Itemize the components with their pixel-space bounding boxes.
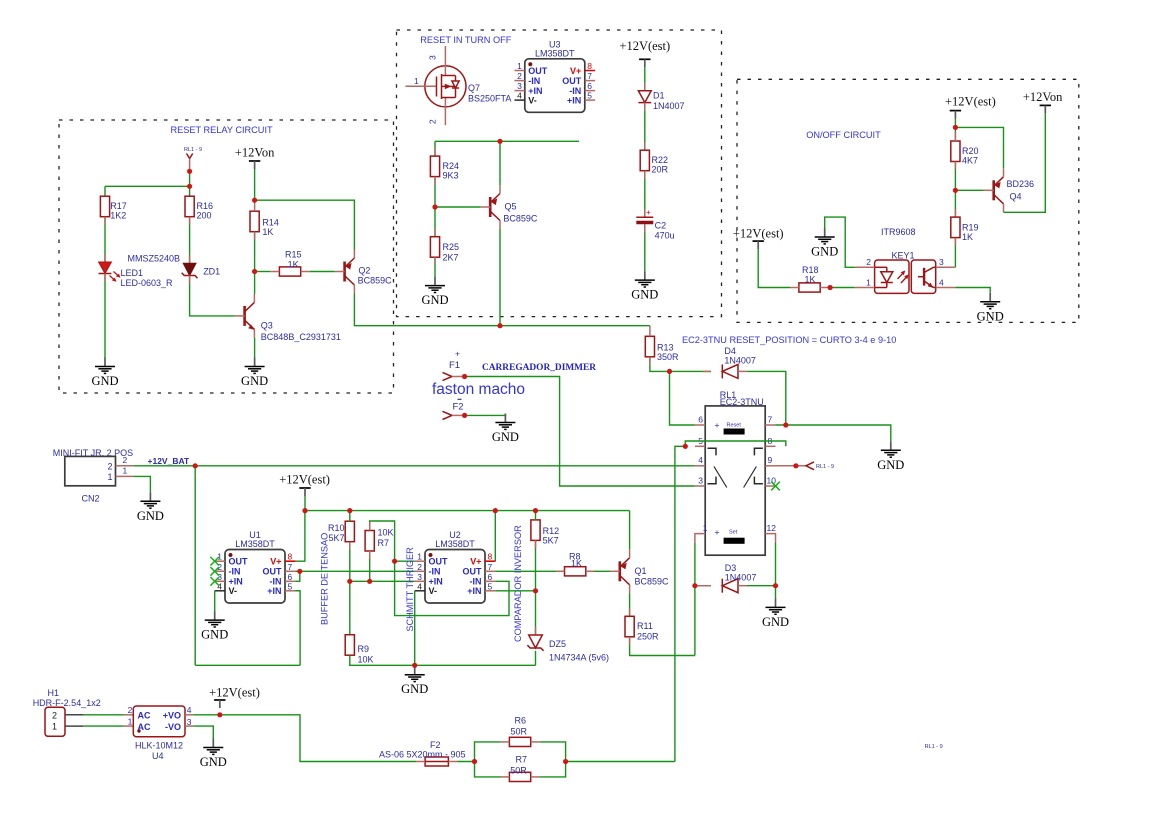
svg-text:BUFFER DE TENSAO: BUFFER DE TENSAO xyxy=(320,533,330,625)
power +12V(est) xyxy=(945,95,996,119)
svg-text:5K7: 5K7 xyxy=(328,533,344,543)
svg-text:V+: V+ xyxy=(270,557,281,567)
wire R7 bottom xyxy=(369,551,371,581)
svg-text:2: 2 xyxy=(128,705,133,715)
svg-text:5: 5 xyxy=(288,581,293,591)
power +12V(est) xyxy=(209,685,260,708)
svg-text:+IN: +IN xyxy=(467,586,481,596)
svg-text:1: 1 xyxy=(414,76,419,86)
wire Q1 emitter up xyxy=(629,511,631,550)
wire bottom U to U1 pin5 xyxy=(195,591,300,666)
ground xyxy=(137,492,164,523)
wire R20-R19 node xyxy=(954,162,956,218)
svg-text:DZ5: DZ5 xyxy=(549,639,566,649)
wire top rail R24/Q5 xyxy=(435,140,579,142)
svg-text:-IN: -IN xyxy=(569,86,581,96)
svg-text:D4: D4 xyxy=(724,346,736,356)
power +12V(est) xyxy=(279,473,330,497)
svg-text:Set: Set xyxy=(729,530,738,536)
svg-text:+IN: +IN xyxy=(267,586,281,596)
wire feedback pin6 loop xyxy=(395,561,509,615)
svg-text:1: 1 xyxy=(107,472,112,482)
wire ZD1-Q3 base xyxy=(190,276,235,316)
svg-text:+12V(est): +12V(est) xyxy=(945,95,996,109)
svg-text:6: 6 xyxy=(488,572,493,582)
svg-text:COMPARADOR INVERSOR: COMPARADOR INVERSOR xyxy=(513,525,523,642)
svg-text:R24: R24 xyxy=(443,161,460,171)
svg-text:R10: R10 xyxy=(328,523,345,533)
ground xyxy=(631,271,658,302)
resistor R25 2K7 xyxy=(430,237,459,263)
resistor R22 20R xyxy=(640,150,668,175)
svg-text:MMSZ5240B: MMSZ5240B xyxy=(127,254,180,264)
svg-text:3: 3 xyxy=(417,572,422,582)
dashed border RESET IN TURN OFF block xyxy=(397,30,722,317)
svg-text:+12V(est): +12V(est) xyxy=(733,226,784,240)
svg-text:V-: V- xyxy=(229,586,238,596)
svg-text:OUT: OUT xyxy=(463,567,483,577)
svg-text:20R: 20R xyxy=(652,165,669,175)
svg-text:LED-0603_R: LED-0603_R xyxy=(121,278,174,288)
resistor R18 1K xyxy=(799,283,820,292)
svg-text:-IN: -IN xyxy=(270,577,282,587)
svg-text:V+: V+ xyxy=(470,557,481,567)
svg-text:BC859C: BC859C xyxy=(503,214,538,224)
svg-text:4: 4 xyxy=(187,705,192,715)
wire R19-opto pin3 xyxy=(954,238,956,268)
svg-text:F2: F2 xyxy=(453,402,464,413)
ground xyxy=(421,277,448,308)
svg-text:1K: 1K xyxy=(962,232,973,242)
svg-text:F1: F1 xyxy=(449,360,460,371)
connector H1 HDR-F-2.54_1x2 xyxy=(33,688,101,737)
wire R11 bottom to relay pin1 net xyxy=(630,637,695,656)
dashed border RESET RELAY CIRCUIT block xyxy=(59,120,394,393)
wire R6R7 to vertical xyxy=(566,761,675,763)
fuse F2 AS-06 5X20mm xyxy=(379,740,466,766)
svg-text:2: 2 xyxy=(517,71,522,81)
resistor R19 1K xyxy=(951,217,979,242)
svg-text:4: 4 xyxy=(939,278,944,288)
wire R15-Q2 base xyxy=(310,271,335,273)
svg-text:+12V_BAT: +12V_BAT xyxy=(148,456,190,466)
svg-text:AC: AC xyxy=(138,711,151,721)
wire U1 pin8 V+ up xyxy=(295,511,305,562)
svg-text:2: 2 xyxy=(417,562,422,572)
svg-text:+IN: +IN xyxy=(429,577,443,587)
wire RL1-9 to R16 xyxy=(189,171,191,196)
wire D3 right xyxy=(747,585,776,587)
svg-text:OUT: OUT xyxy=(263,567,283,577)
svg-text:1N4007: 1N4007 xyxy=(725,573,757,583)
svg-text:D1: D1 xyxy=(653,91,665,101)
wire R9 node down xyxy=(349,581,351,634)
wire U1 pin4 to GND xyxy=(214,591,216,611)
svg-text:3: 3 xyxy=(428,55,438,60)
svg-text:R12: R12 xyxy=(543,526,560,536)
svg-text:1: 1 xyxy=(517,61,522,71)
wire R6 branch xyxy=(475,742,566,762)
svg-text:R11: R11 xyxy=(637,621,653,631)
svg-text:Q2: Q2 xyxy=(358,266,370,276)
svg-text:6: 6 xyxy=(698,415,703,425)
svg-text:4: 4 xyxy=(517,91,522,101)
svg-text:LED1: LED1 xyxy=(121,268,144,278)
svg-text:5: 5 xyxy=(587,91,592,101)
diode D3 1N4007 xyxy=(722,579,738,593)
svg-text:2: 2 xyxy=(866,257,871,267)
wire R17-LED1 xyxy=(104,217,106,262)
svg-text:Q1: Q1 xyxy=(635,566,647,576)
svg-text:7: 7 xyxy=(768,415,773,425)
wire Q5 emitter xyxy=(499,141,501,185)
svg-text:OUT: OUT xyxy=(562,76,582,86)
svg-text:3: 3 xyxy=(939,257,944,267)
LED LED1 LED-0603_R xyxy=(99,262,173,288)
resistor R15 1K xyxy=(279,267,300,276)
svg-text:4: 4 xyxy=(217,581,222,591)
svg-text:+: + xyxy=(715,527,720,537)
diode D1 1N4007 xyxy=(638,91,651,103)
wire D3 left xyxy=(695,585,711,587)
svg-text:ON/OFF CIRCUIT: ON/OFF CIRCUIT xyxy=(806,130,881,140)
ground xyxy=(811,228,838,259)
svg-text:1N4007: 1N4007 xyxy=(724,356,756,366)
svg-text:KEY1: KEY1 xyxy=(892,251,915,261)
svg-text:50R: 50R xyxy=(510,766,527,776)
svg-text:1: 1 xyxy=(417,552,422,562)
svg-text:+12V(est): +12V(est) xyxy=(619,39,670,53)
wire +12V rail xyxy=(305,496,630,511)
svg-text:R9: R9 xyxy=(358,644,370,654)
no-connect pin10 xyxy=(771,482,780,491)
svg-text:-IN: -IN xyxy=(470,577,482,587)
svg-text:ZD1: ZD1 xyxy=(203,267,220,277)
svg-text:C2: C2 xyxy=(655,221,667,231)
resistor R17 1K2 xyxy=(100,196,126,221)
wire R6R7 feed up to relay pin5 xyxy=(675,446,685,761)
transistor Q4 BD236 xyxy=(984,168,1004,212)
svg-text:faston macho: faston macho xyxy=(432,381,525,398)
transistor Q5 BC859C xyxy=(480,185,500,229)
svg-text:7: 7 xyxy=(288,562,293,572)
wire U2 pin4 down xyxy=(414,591,416,666)
svg-text:5K7: 5K7 xyxy=(543,536,559,546)
ground xyxy=(200,739,227,770)
svg-text:R25: R25 xyxy=(443,242,460,252)
svg-text:3: 3 xyxy=(217,572,222,582)
wire -VO to GND xyxy=(193,726,213,738)
wire U2 pin5 right xyxy=(495,590,535,592)
power +12V(est) xyxy=(619,39,670,67)
wire to D1 xyxy=(644,67,646,90)
ground xyxy=(91,358,118,389)
svg-text:V-: V- xyxy=(429,586,438,596)
resistor R13 350R xyxy=(645,336,679,362)
svg-text:RL1 - 9: RL1 - 9 xyxy=(816,464,834,470)
svg-text:R7: R7 xyxy=(516,754,528,764)
wire R13 node to D4 xyxy=(670,370,712,372)
wire R7 branch xyxy=(475,762,566,777)
resistor R24 9K3 xyxy=(430,156,459,181)
svg-text:R18: R18 xyxy=(802,265,819,275)
wire GND jog to opto pin2 xyxy=(825,217,855,267)
svg-text:LM358DT: LM358DT xyxy=(535,48,575,58)
dashed border ON/OFF CIRCUIT block xyxy=(737,79,1079,322)
svg-text:2: 2 xyxy=(107,461,112,471)
svg-text:3: 3 xyxy=(187,717,192,727)
svg-text:1K2: 1K2 xyxy=(110,211,126,221)
svg-text:CN2: CN2 xyxy=(82,494,100,504)
power +12V(est) left xyxy=(733,226,784,249)
wire to R17 xyxy=(105,186,190,196)
svg-text:3: 3 xyxy=(698,476,703,486)
svg-text:+12Von: +12Von xyxy=(1023,90,1063,104)
optocoupler KEY1 ITR9608 xyxy=(855,227,956,293)
svg-text:+12V(est): +12V(est) xyxy=(279,473,330,487)
wire pin9 to label xyxy=(776,465,807,467)
svg-text:10K: 10K xyxy=(358,655,374,665)
svg-text:2: 2 xyxy=(123,455,128,465)
svg-text:10: 10 xyxy=(767,476,777,486)
svg-text:1N4734A (5v6): 1N4734A (5v6) xyxy=(549,653,609,663)
wire R12 top xyxy=(535,511,537,520)
wire U2 out to R8/Q1 xyxy=(495,570,610,572)
svg-text:+IN: +IN xyxy=(229,577,243,587)
ground xyxy=(977,293,1004,324)
resistor R7 50R xyxy=(509,772,530,781)
svg-text:D3: D3 xyxy=(725,563,737,573)
wire Q1 collector to R11 xyxy=(629,593,631,616)
svg-text:EC2-3TNU: EC2-3TNU xyxy=(720,397,764,407)
svg-text:1: 1 xyxy=(123,466,128,476)
svg-text:U4: U4 xyxy=(152,751,164,761)
wire Q5 collector xyxy=(499,229,501,326)
wire Q4 collector to +12Von xyxy=(1004,113,1046,212)
svg-text:+: + xyxy=(646,208,651,217)
wire LED1-GND xyxy=(104,274,106,358)
svg-text:RL1 - 9: RL1 - 9 xyxy=(184,147,202,153)
op-amp U1 LM358DT xyxy=(210,530,295,603)
wire R10 bottom xyxy=(349,542,351,582)
svg-text:1: 1 xyxy=(217,552,222,562)
svg-text:R13: R13 xyxy=(657,343,674,353)
resistor R16 200 xyxy=(185,196,213,221)
wire R18-opto pin1 xyxy=(829,287,855,289)
svg-text:Q3: Q3 xyxy=(261,321,273,331)
svg-text:2: 2 xyxy=(52,710,57,720)
svg-text:1K: 1K xyxy=(288,259,299,269)
svg-text:BC859C: BC859C xyxy=(635,577,670,587)
ground xyxy=(401,666,428,697)
svg-text:+12V(est): +12V(est) xyxy=(209,685,260,699)
relay RL1 EC2-3TNU xyxy=(695,390,776,555)
svg-text:R14: R14 xyxy=(262,218,279,228)
wire R14-Q3 collector xyxy=(254,232,256,294)
wire R22-C2 xyxy=(644,171,646,218)
svg-text:HDR-F-2.54_1x2: HDR-F-2.54_1x2 xyxy=(33,698,101,708)
wire C2-GND xyxy=(644,224,646,271)
svg-text:+: + xyxy=(455,349,460,359)
svg-text:R7: R7 xyxy=(378,538,390,548)
svg-text:5: 5 xyxy=(488,581,493,591)
wire +12V_BAT rail to relay pin4 xyxy=(134,465,695,467)
wire R13 bottom xyxy=(650,357,670,372)
wire F1 to relay pin3 xyxy=(465,377,695,487)
wire pin12 down to GND xyxy=(775,543,777,598)
zener diode ZD1 MMSZ5240B xyxy=(127,254,220,279)
svg-text:8: 8 xyxy=(488,552,493,562)
wire DZ5-gnd rail xyxy=(535,651,537,666)
wire U1 pin5 down xyxy=(295,590,300,592)
svg-text:SCHMITT THRIGER: SCHMITT THRIGER xyxy=(405,547,415,632)
wire Q2 collector down xyxy=(354,294,650,326)
wire pin1 down xyxy=(694,543,696,656)
svg-text:-IN: -IN xyxy=(429,567,441,577)
svg-text:50R: 50R xyxy=(511,727,528,737)
svg-text:6: 6 xyxy=(288,572,293,582)
resistor R8 1K xyxy=(565,567,586,576)
resistor R12 5K7 xyxy=(531,520,559,546)
svg-text:1: 1 xyxy=(703,523,708,533)
wire pin7 to GND xyxy=(776,425,891,441)
svg-text:4: 4 xyxy=(698,455,703,465)
wire R25-GND xyxy=(434,257,436,276)
svg-text:RESET IN TURN OFF: RESET IN TURN OFF xyxy=(420,35,511,45)
power +12Von xyxy=(235,146,275,170)
svg-text:OUT: OUT xyxy=(528,66,548,76)
svg-text:+: + xyxy=(715,420,720,430)
svg-text:-VO: -VO xyxy=(165,722,181,732)
wire to R20 xyxy=(954,119,956,141)
svg-text:+IN: +IN xyxy=(528,86,542,96)
wire U2 pin8 V+ up xyxy=(494,511,496,562)
global label RL1 - 9 (pin9) xyxy=(806,462,834,470)
svg-text:Q7: Q7 xyxy=(468,83,480,93)
resistor R10 5K7 xyxy=(328,521,354,543)
wire R10 top xyxy=(349,511,351,522)
wire +VO to fuse F2 xyxy=(193,715,416,762)
wire CN2 pin1 to GND xyxy=(134,476,150,492)
wire pin5/pin8 jog xyxy=(685,441,786,446)
wire +12Von to R14 xyxy=(254,169,256,200)
wire to R18 xyxy=(758,249,790,287)
svg-text:12: 12 xyxy=(767,523,777,533)
wire R7 top to U2 pin1 xyxy=(370,521,395,561)
svg-text:9: 9 xyxy=(768,455,773,465)
svg-text:1K: 1K xyxy=(805,274,816,284)
svg-text:HLK-10M12: HLK-10M12 xyxy=(135,740,183,750)
ground xyxy=(877,441,904,472)
svg-text:200: 200 xyxy=(197,211,212,221)
svg-text:1: 1 xyxy=(866,278,871,288)
svg-text:8: 8 xyxy=(288,552,293,562)
svg-text:7: 7 xyxy=(488,562,493,572)
resistor R7 10K xyxy=(365,527,393,551)
transistor Q1 BC859C xyxy=(610,549,630,593)
wire to Q5 base xyxy=(435,206,480,208)
svg-text:EC2-3TNU RESET_POSITION = CURT: EC2-3TNU RESET_POSITION = CURTO 3-4 e 9-… xyxy=(682,335,896,345)
svg-text:LM358DT: LM358DT xyxy=(235,539,275,549)
svg-text:9K3: 9K3 xyxy=(443,171,459,181)
svg-text:AS-06 5X20mm - 905: AS-06 5X20mm - 905 xyxy=(379,749,466,759)
wire fuse to R6R7 xyxy=(458,761,475,763)
svg-text:RESET RELAY CIRCUIT: RESET RELAY CIRCUIT xyxy=(171,125,273,135)
wire U1 pin7 out xyxy=(295,570,414,572)
svg-text:BC859C: BC859C xyxy=(358,276,393,286)
svg-text:250R: 250R xyxy=(637,632,659,642)
svg-text:7: 7 xyxy=(587,71,592,81)
svg-text:-IN: -IN xyxy=(229,567,241,577)
svg-text:+12Von: +12Von xyxy=(235,146,275,160)
svg-text:BD236: BD236 xyxy=(1007,179,1035,189)
svg-text:1: 1 xyxy=(128,716,133,726)
svg-text:1: 1 xyxy=(52,722,57,732)
svg-text:R16: R16 xyxy=(197,201,214,211)
wire R9-gnd rail xyxy=(350,655,536,665)
svg-text:1K: 1K xyxy=(262,227,273,237)
svg-text:LM358DT: LM358DT xyxy=(435,539,475,549)
wire +12V_BAT down xyxy=(194,466,196,666)
svg-text:R19: R19 xyxy=(962,223,979,233)
svg-text:R15: R15 xyxy=(285,250,302,260)
svg-text:Q5: Q5 xyxy=(505,202,517,212)
wire to Q2 emitter xyxy=(255,200,355,250)
transistor Q7 BS250FTA p-mosfet xyxy=(405,46,511,125)
wire to Q4 emitter xyxy=(955,127,1003,168)
svg-text:4K7: 4K7 xyxy=(962,156,978,166)
transistor Q2 BC859C xyxy=(335,250,355,294)
ground xyxy=(241,358,268,389)
ground xyxy=(201,611,228,642)
svg-text:BC848B_C2931731: BC848B_C2931731 xyxy=(261,332,341,342)
svg-text:470u: 470u xyxy=(655,231,675,241)
global label RL1 - 9 (top) xyxy=(184,147,202,171)
svg-text:OUT: OUT xyxy=(229,557,249,567)
svg-text:350R: 350R xyxy=(657,352,679,362)
ground xyxy=(492,414,519,445)
wire pin3 node xyxy=(350,580,415,582)
resistor R14 1K xyxy=(250,211,279,237)
svg-text:MINI-FIT JR. 2 POS: MINI-FIT JR. 2 POS xyxy=(53,448,133,458)
diode D4 1N4007 xyxy=(722,364,738,378)
svg-text:Reset: Reset xyxy=(727,423,742,429)
global label F2 - xyxy=(443,399,465,419)
svg-text:1N4007: 1N4007 xyxy=(653,101,685,111)
wire to Q4 base xyxy=(955,189,984,191)
svg-text:R17: R17 xyxy=(110,201,127,211)
svg-text:RL1 - 9: RL1 - 9 xyxy=(925,744,943,750)
wire R16-ZD1 xyxy=(189,217,191,264)
wire U2 pin1 xyxy=(395,560,415,562)
capacitor C2 470u xyxy=(636,208,674,241)
op-amp U3 LM358DT xyxy=(515,39,596,112)
svg-text:10K: 10K xyxy=(378,527,394,537)
module U4 HLK-10M12 xyxy=(128,705,194,761)
svg-text:H1: H1 xyxy=(48,688,60,698)
svg-text:V-: V- xyxy=(528,96,537,106)
wire D1-R22 xyxy=(644,103,646,151)
svg-text:1K: 1K xyxy=(571,559,582,569)
svg-text:3: 3 xyxy=(517,81,522,91)
wire R15 left xyxy=(255,271,271,273)
wire to R24 xyxy=(434,141,436,156)
resistor R9 10K xyxy=(345,635,373,665)
svg-text:R20: R20 xyxy=(962,146,979,156)
svg-text:V+: V+ xyxy=(570,66,581,76)
op-amp U2 LM358DT xyxy=(415,530,496,603)
svg-text:4: 4 xyxy=(417,581,422,591)
